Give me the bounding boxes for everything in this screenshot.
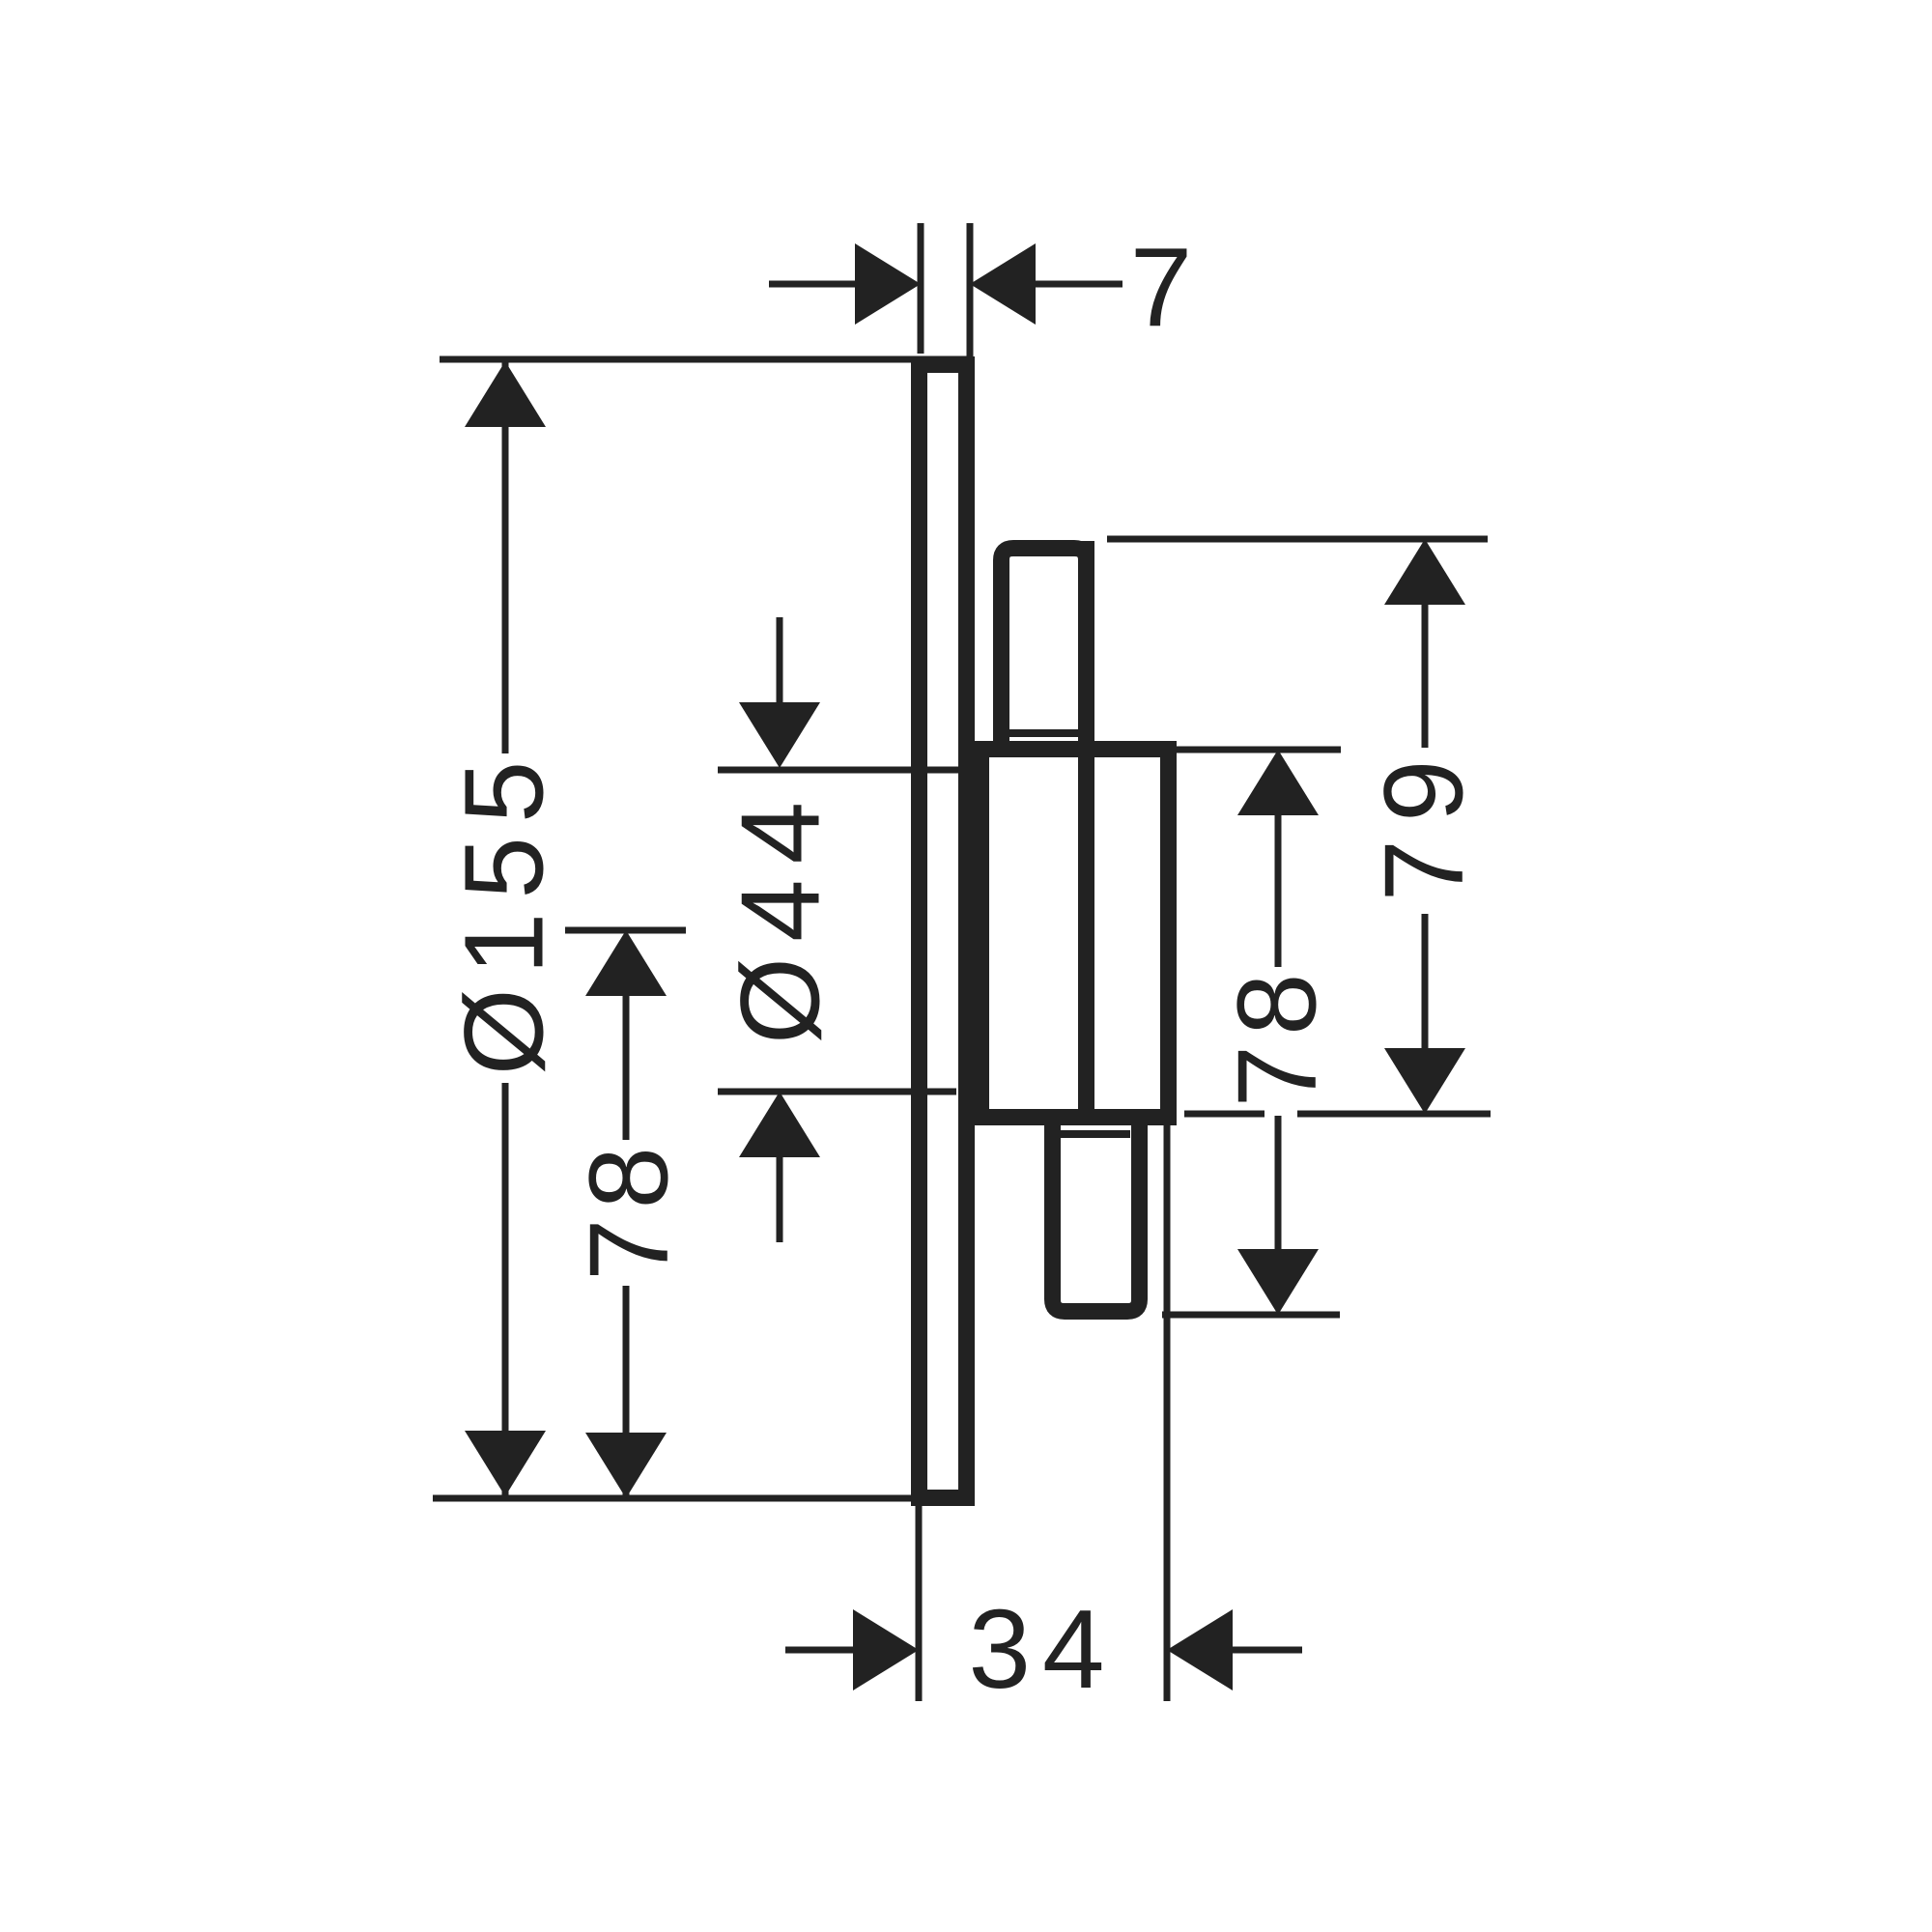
svg-text:Ø44: Ø44 bbox=[718, 786, 843, 1044]
dimension 78 right: line lower segment bbox=[1275, 1116, 1282, 1250]
bottom port (lower connection, rounded bottom corners) bbox=[1053, 1117, 1140, 1312]
wall plate (escutcheon, side view) bbox=[920, 365, 967, 1498]
extension line: plate top (Ø155 top) bbox=[440, 356, 973, 363]
port inner bottom edge bbox=[1009, 729, 1078, 737]
extension line: bottom port bottom (78 right bottom) bbox=[1162, 1312, 1340, 1319]
svg-text:78: 78 bbox=[566, 1137, 692, 1281]
extension line: Ø44 bottom bbox=[718, 1089, 956, 1095]
extension line: Ø44 top bbox=[718, 767, 959, 774]
dimension 79: line upper segment bbox=[1422, 603, 1429, 748]
arrowhead: 79 bottom (points down) bbox=[1384, 1048, 1465, 1114]
svg-text:79: 79 bbox=[1361, 742, 1487, 901]
svg-text:7: 7 bbox=[1130, 224, 1193, 350]
arrowhead: Ø155 bottom (points down) bbox=[465, 1431, 546, 1496]
svg-text:34: 34 bbox=[968, 1586, 1116, 1712]
arrowhead: 79 top (points up) bbox=[1384, 539, 1465, 605]
extension line: vertical, body right (34 dim) bbox=[1164, 1121, 1171, 1701]
arrowhead: 78 left top (points up) bbox=[585, 930, 667, 996]
arrowhead: 78 left bottom (points down) bbox=[585, 1433, 667, 1498]
dimension Ø155: line upper segment bbox=[502, 361, 509, 753]
extension line: centre axis (78 left top) bbox=[565, 927, 686, 934]
arrowhead: 78 right bottom (points down) bbox=[1237, 1249, 1319, 1315]
dimension Ø155: line lower segment bbox=[502, 1083, 509, 1496]
arrowhead: Ø44 top (points down) bbox=[739, 702, 820, 768]
dimension 78 left: line lower segment bbox=[623, 1286, 630, 1496]
dimension 7: left tail bbox=[769, 281, 856, 288]
arrowhead: 78 right top (points up) bbox=[1237, 750, 1319, 815]
extension line: top port top (79 top) bbox=[1107, 536, 1488, 543]
dimension 78 right: line upper segment bbox=[1275, 813, 1282, 967]
bottom port inner top edge bbox=[1061, 1130, 1130, 1138]
dimension 7: right tail bbox=[1035, 281, 1122, 288]
dimension 34: right tail bbox=[1231, 1647, 1302, 1654]
arrowhead: 7 right (points left) bbox=[970, 243, 1036, 325]
dimension Ø44: upper tail bbox=[777, 617, 783, 706]
extension line: vertical, plate left (34 dim) bbox=[916, 1506, 923, 1701]
top port (upper connection, rounded top corners) bbox=[1002, 549, 1087, 753]
dimension 78 left: line upper segment bbox=[623, 994, 630, 1140]
dimension 34: left tail bbox=[785, 1647, 856, 1654]
arrowhead: 34 left (points right) bbox=[853, 1609, 919, 1690]
svg-text:Ø155: Ø155 bbox=[441, 748, 567, 1076]
svg-text:78: 78 bbox=[1214, 963, 1340, 1107]
extension line: vertical, plate left face (7 dim) bbox=[918, 223, 924, 354]
arrowhead: 7 left (points right) bbox=[855, 243, 921, 325]
valve body (main housing) bbox=[981, 750, 1169, 1118]
arrowhead: 34 right (points left) bbox=[1167, 1609, 1233, 1690]
dimension 79: line lower segment bbox=[1422, 914, 1429, 1050]
extension line: vertical, plate right face (7 dim) bbox=[967, 223, 974, 359]
arrowhead: Ø155 top (points up) bbox=[465, 361, 546, 427]
arrowhead: Ø44 bottom (points up) bbox=[739, 1092, 820, 1157]
inner vertical line (body step / port edge continuation) bbox=[1078, 541, 1094, 1118]
extension line: plate bottom (Ø155 / 78 bottom) bbox=[433, 1495, 918, 1502]
extension line: body bottom (79 bottom, with gap at 78 line) bbox=[1184, 1111, 1264, 1118]
extension line: body top (78 right top) bbox=[1177, 747, 1341, 753]
dimension Ø44: lower tail bbox=[777, 1155, 783, 1242]
